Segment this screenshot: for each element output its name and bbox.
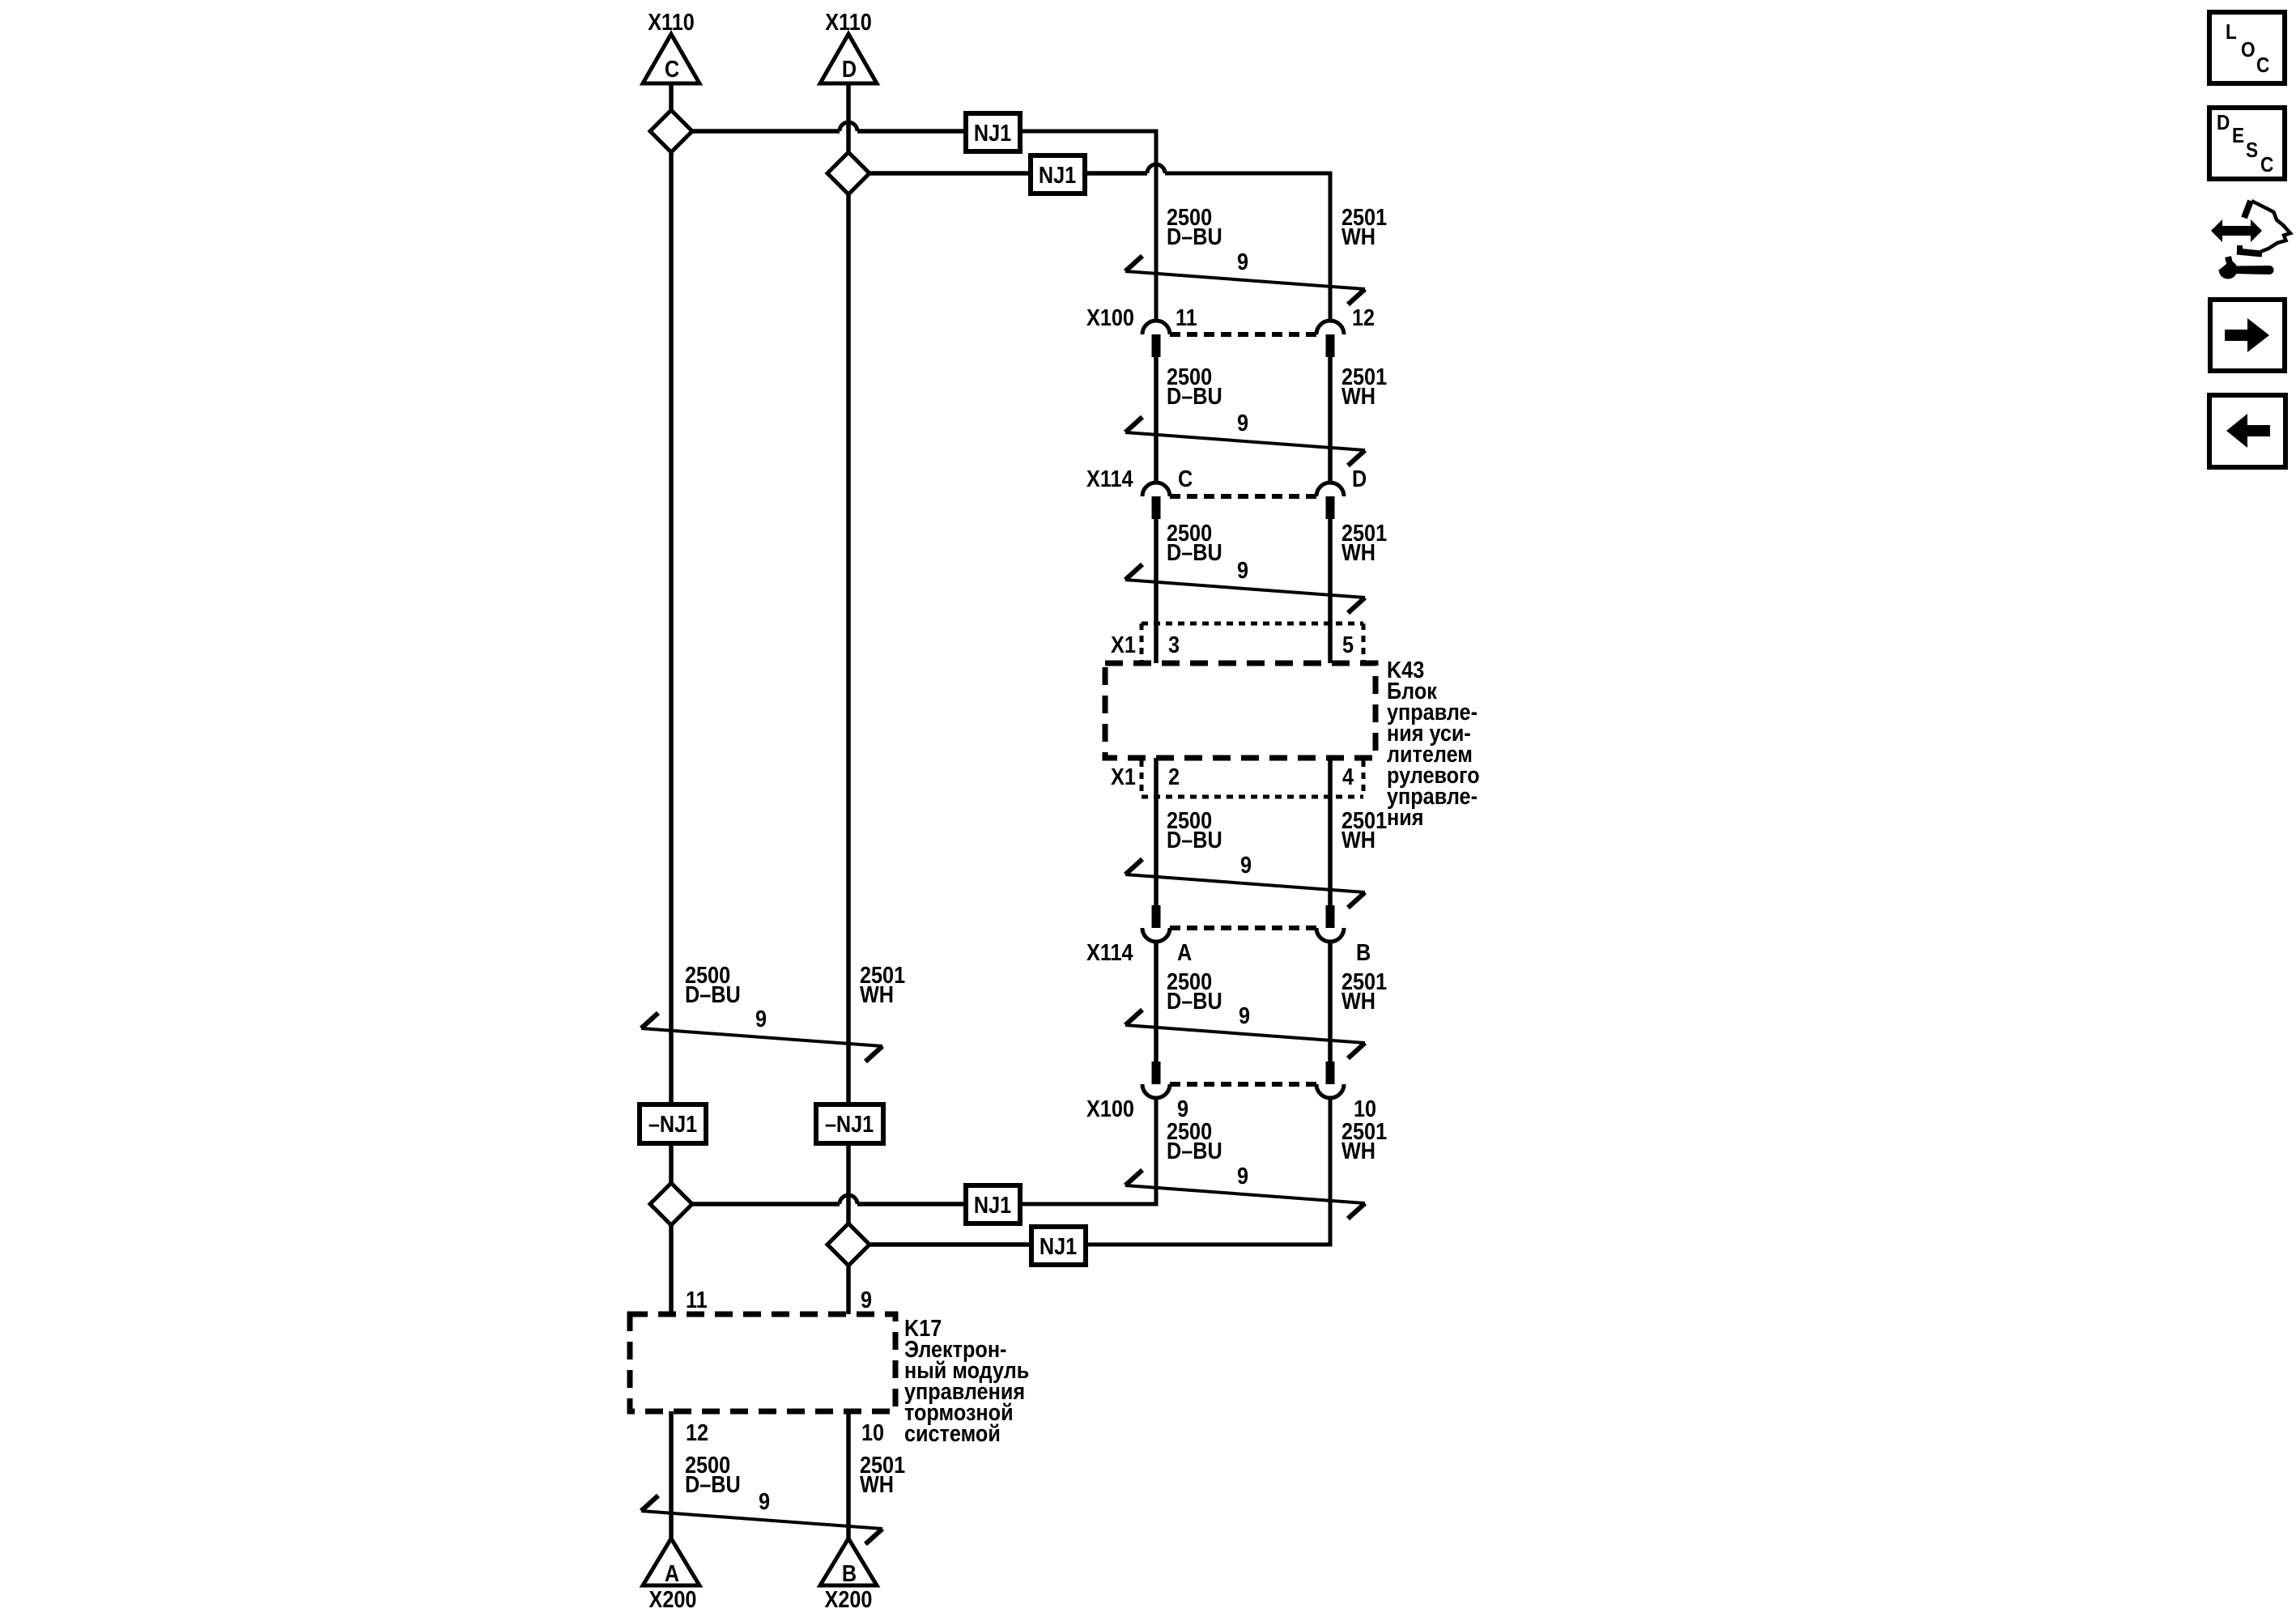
svg-text:X200: X200 (825, 1585, 873, 1612)
svg-text:C: C (2260, 154, 2273, 177)
svg-text:X110: X110 (825, 8, 872, 35)
svg-text:WH: WH (1341, 538, 1375, 565)
svg-text:9: 9 (1239, 1002, 1250, 1028)
svg-text:D–BU: D–BU (1167, 382, 1222, 409)
svg-text:9: 9 (1237, 1162, 1248, 1189)
svg-text:X114: X114 (1086, 938, 1133, 965)
svg-text:WH: WH (1341, 826, 1375, 853)
svg-text:WH: WH (1341, 382, 1375, 409)
svg-text:S: S (2246, 139, 2258, 163)
svg-text:WH: WH (1341, 223, 1375, 249)
svg-text:WH: WH (1341, 1137, 1375, 1164)
svg-text:X100: X100 (1086, 304, 1134, 330)
svg-text:X114: X114 (1086, 465, 1133, 491)
svg-text:X1: X1 (1111, 631, 1136, 657)
svg-text:NJ1: NJ1 (974, 1191, 1011, 1218)
svg-text:C: C (1178, 465, 1193, 491)
svg-text:X110: X110 (648, 8, 695, 35)
svg-text:–NJ1: –NJ1 (825, 1110, 874, 1137)
svg-text:системой: системой (904, 1419, 1001, 1446)
svg-text:WH: WH (860, 981, 894, 1007)
svg-text:9: 9 (1237, 409, 1248, 436)
svg-text:C: C (665, 55, 679, 82)
svg-text:9: 9 (1237, 248, 1248, 274)
svg-text:9: 9 (1240, 851, 1252, 878)
svg-text:X200: X200 (649, 1585, 697, 1612)
svg-text:11: 11 (686, 1286, 708, 1313)
svg-text:11: 11 (1176, 304, 1197, 330)
svg-text:L: L (2226, 21, 2237, 45)
svg-text:10: 10 (861, 1419, 884, 1445)
svg-text:9: 9 (1177, 1095, 1188, 1121)
svg-text:9: 9 (861, 1286, 872, 1313)
svg-text:A: A (665, 1560, 679, 1586)
svg-text:2: 2 (1168, 763, 1180, 789)
svg-text:NJ1: NJ1 (974, 119, 1011, 146)
svg-text:12: 12 (686, 1419, 708, 1445)
svg-text:D: D (1352, 465, 1367, 491)
svg-text:X1: X1 (1111, 763, 1136, 789)
svg-text:X100: X100 (1086, 1095, 1134, 1121)
svg-text:WH: WH (860, 1470, 894, 1497)
svg-text:3: 3 (1168, 631, 1180, 657)
svg-text:12: 12 (1352, 304, 1375, 330)
svg-text:E: E (2232, 125, 2244, 148)
svg-text:9: 9 (1237, 556, 1248, 583)
svg-text:10: 10 (1354, 1095, 1376, 1121)
svg-text:ния: ния (1387, 803, 1423, 830)
svg-text:9: 9 (755, 1005, 767, 1032)
svg-text:D: D (2217, 112, 2230, 135)
svg-text:D–BU: D–BU (1167, 538, 1222, 565)
svg-text:D–BU: D–BU (1167, 826, 1222, 853)
svg-text:4: 4 (1342, 763, 1354, 789)
svg-text:D–BU: D–BU (685, 981, 741, 1007)
svg-text:D: D (842, 55, 857, 82)
svg-text:C: C (2256, 54, 2269, 78)
svg-text:5: 5 (1342, 631, 1354, 657)
svg-text:O: O (2241, 39, 2256, 62)
svg-text:WH: WH (1341, 987, 1375, 1014)
svg-text:B: B (1356, 938, 1371, 965)
svg-text:D–BU: D–BU (685, 1470, 741, 1497)
svg-text:9: 9 (759, 1487, 770, 1514)
svg-text:D–BU: D–BU (1167, 987, 1222, 1014)
svg-text:D–BU: D–BU (1167, 223, 1222, 249)
svg-text:NJ1: NJ1 (1039, 161, 1076, 188)
svg-text:A: A (1177, 938, 1192, 965)
svg-text:D–BU: D–BU (1167, 1137, 1222, 1164)
svg-text:B: B (842, 1560, 857, 1586)
svg-text:–NJ1: –NJ1 (648, 1110, 697, 1137)
svg-text:NJ1: NJ1 (1040, 1232, 1077, 1259)
